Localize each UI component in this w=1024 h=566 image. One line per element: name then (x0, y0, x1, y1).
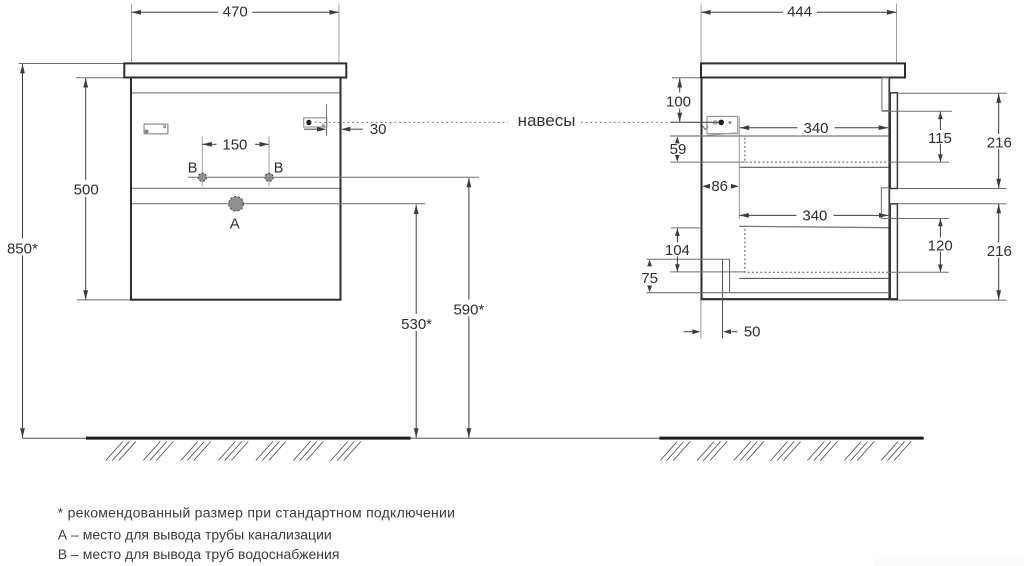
dotted hanger leader line right segment (581, 121, 672, 123)
dimension 150 (202, 143, 216, 145)
svg-text:216: 216 (987, 135, 1012, 152)
dimension 75 (647, 260, 652, 267)
drawer 2 top line (739, 226, 888, 227)
floor hatching side view (660, 442, 911, 461)
front edge bottom extension (700, 300, 702, 339)
svg-text:590*: 590* (453, 301, 484, 318)
stub 104 bottom (670, 271, 745, 273)
stub 216 lower bottom (898, 299, 1007, 301)
cabinet bottom side view (701, 298, 898, 300)
svg-text:150: 150 (222, 136, 247, 153)
left hinge plate (144, 124, 168, 134)
svg-text:340: 340 (803, 120, 828, 137)
stub 104 top (671, 227, 702, 229)
hinge pilot dot side view (718, 120, 724, 126)
dimension 500 top stub (76, 77, 124, 79)
svg-text:30: 30 (370, 121, 387, 138)
countertop side view (701, 63, 905, 77)
upper hanging strip (890, 93, 897, 189)
dimension 590 (468, 178, 470, 438)
svg-text:340: 340 (802, 207, 827, 224)
svg-text:59: 59 (670, 141, 687, 158)
dimension 340 upper (740, 127, 889, 129)
floor baseline (22, 437, 659, 439)
hinge hook mark (702, 125, 708, 130)
dimension 530 (415, 205, 417, 438)
toe notch left edge and 50 extension (722, 259, 724, 338)
stub 115 top (882, 110, 952, 112)
dimension 150 extension line right (268, 136, 270, 186)
svg-text:* рекомендованный размер при с: * рекомендованный размер при стандартном… (58, 504, 455, 520)
drawer divider line (132, 187, 340, 189)
hinge ring (714, 121, 717, 124)
top wall rail (882, 78, 889, 111)
toe notch right edge (729, 259, 731, 293)
dimension 444 (701, 11, 896, 13)
svg-text:444: 444 (787, 3, 812, 20)
notch top / 75 top stub (647, 258, 730, 260)
interior bottom line / 75 bottom stub (647, 292, 889, 294)
stub 59 bottom / 115 left (670, 161, 745, 163)
water supply reference line B (188, 176, 479, 178)
floor line side view (659, 437, 923, 440)
mid wall rail (881, 188, 888, 219)
stub 120 bottom (889, 271, 949, 273)
dimension 86 (702, 184, 710, 189)
svg-text:A: A (230, 216, 240, 233)
dimension 104 (676, 229, 678, 272)
svg-text:А – место для вывода трубы кан: А – место для вывода трубы канализации (58, 526, 332, 542)
drawer 2 bottom line (739, 277, 889, 279)
wall reference line top (850 datum) (19, 63, 125, 65)
faint corner shade (875, 559, 1024, 566)
stub 120 top (883, 218, 949, 220)
dimension 500 (85, 78, 87, 299)
dotted hanger leader line left segment (310, 121, 508, 123)
dimension 216 lower (998, 204, 1000, 300)
dimension 470 extension line left (131, 4, 133, 64)
left hinge screw bottom-left (145, 130, 148, 133)
dimension 115 (939, 112, 941, 162)
water supply hole B left (198, 173, 206, 181)
hinge small screw side view (729, 121, 732, 124)
svg-text:104: 104 (665, 242, 690, 259)
drawer front extension line (738, 116, 740, 219)
drawer 1 dotted box (745, 138, 888, 163)
stub 216 upper bottom (898, 188, 1007, 190)
right hinge screw (322, 124, 325, 127)
dimension 150 extension line left (201, 136, 203, 186)
dimension 500 bottom stub (77, 299, 131, 301)
svg-text:120: 120 (928, 237, 953, 254)
svg-text:530*: 530* (401, 316, 432, 333)
svg-text:500: 500 (74, 181, 99, 198)
stub 115 bottom (889, 161, 949, 163)
dimension 340 lower (739, 214, 888, 216)
drawer 1 top line (670, 135, 888, 137)
drawer 2 dotted box (745, 229, 889, 272)
svg-text:850*: 850* (7, 240, 38, 257)
svg-text:50: 50 (744, 324, 761, 341)
right hinge pilot dot (306, 120, 311, 125)
floor line left view (86, 437, 411, 440)
hinge plate bottom edge (707, 133, 737, 136)
svg-text:470: 470 (223, 3, 248, 20)
svg-text:навесы: навесы (518, 111, 576, 130)
stub 216 lower top (898, 203, 1007, 205)
svg-text:B: B (188, 160, 198, 176)
drain reference line A (132, 203, 425, 205)
dimension 100 top stub (672, 77, 701, 79)
svg-text:B: B (274, 160, 284, 176)
cabinet body front view (131, 78, 341, 300)
dimension 444 extension line right (896, 4, 898, 64)
hinge plate side view (707, 116, 738, 133)
dimension 59 (675, 137, 680, 144)
floor hatching left view (106, 442, 361, 461)
dimension 216 upper (998, 94, 1000, 189)
cabinet back edge side view (888, 78, 890, 301)
dimension 50 (684, 331, 693, 333)
hinge vertical reference line (326, 104, 328, 136)
dimension 100 (679, 78, 681, 122)
cabinet top rail line (132, 92, 340, 94)
svg-text:216: 216 (987, 243, 1012, 260)
svg-text:86: 86 (711, 178, 728, 195)
dimension 30 (304, 128, 318, 130)
dimension 470 (132, 11, 339, 13)
water supply hole B right (265, 173, 273, 181)
svg-text:75: 75 (641, 270, 658, 287)
left hinge screw top-right (163, 125, 166, 128)
dimension 120 (939, 219, 941, 272)
drawer 1 bottom line (739, 166, 889, 168)
right hinge plate (304, 118, 327, 127)
lower hanging strip (890, 204, 897, 300)
drain hole A (229, 197, 244, 212)
stub 216 upper top (897, 92, 1006, 94)
svg-text:115: 115 (928, 130, 952, 147)
cabinet front edge side view (701, 78, 703, 301)
hanger leader solid stub (671, 121, 718, 123)
dimension 850 (22, 64, 24, 438)
countertop front view (124, 63, 346, 77)
dimension 470 extension line right (338, 4, 340, 64)
svg-text:100: 100 (666, 93, 691, 110)
svg-text:В – место для вывода труб водо: В – место для вывода труб водоснабжения (58, 546, 340, 562)
dimension 444 extension line left (700, 4, 702, 64)
